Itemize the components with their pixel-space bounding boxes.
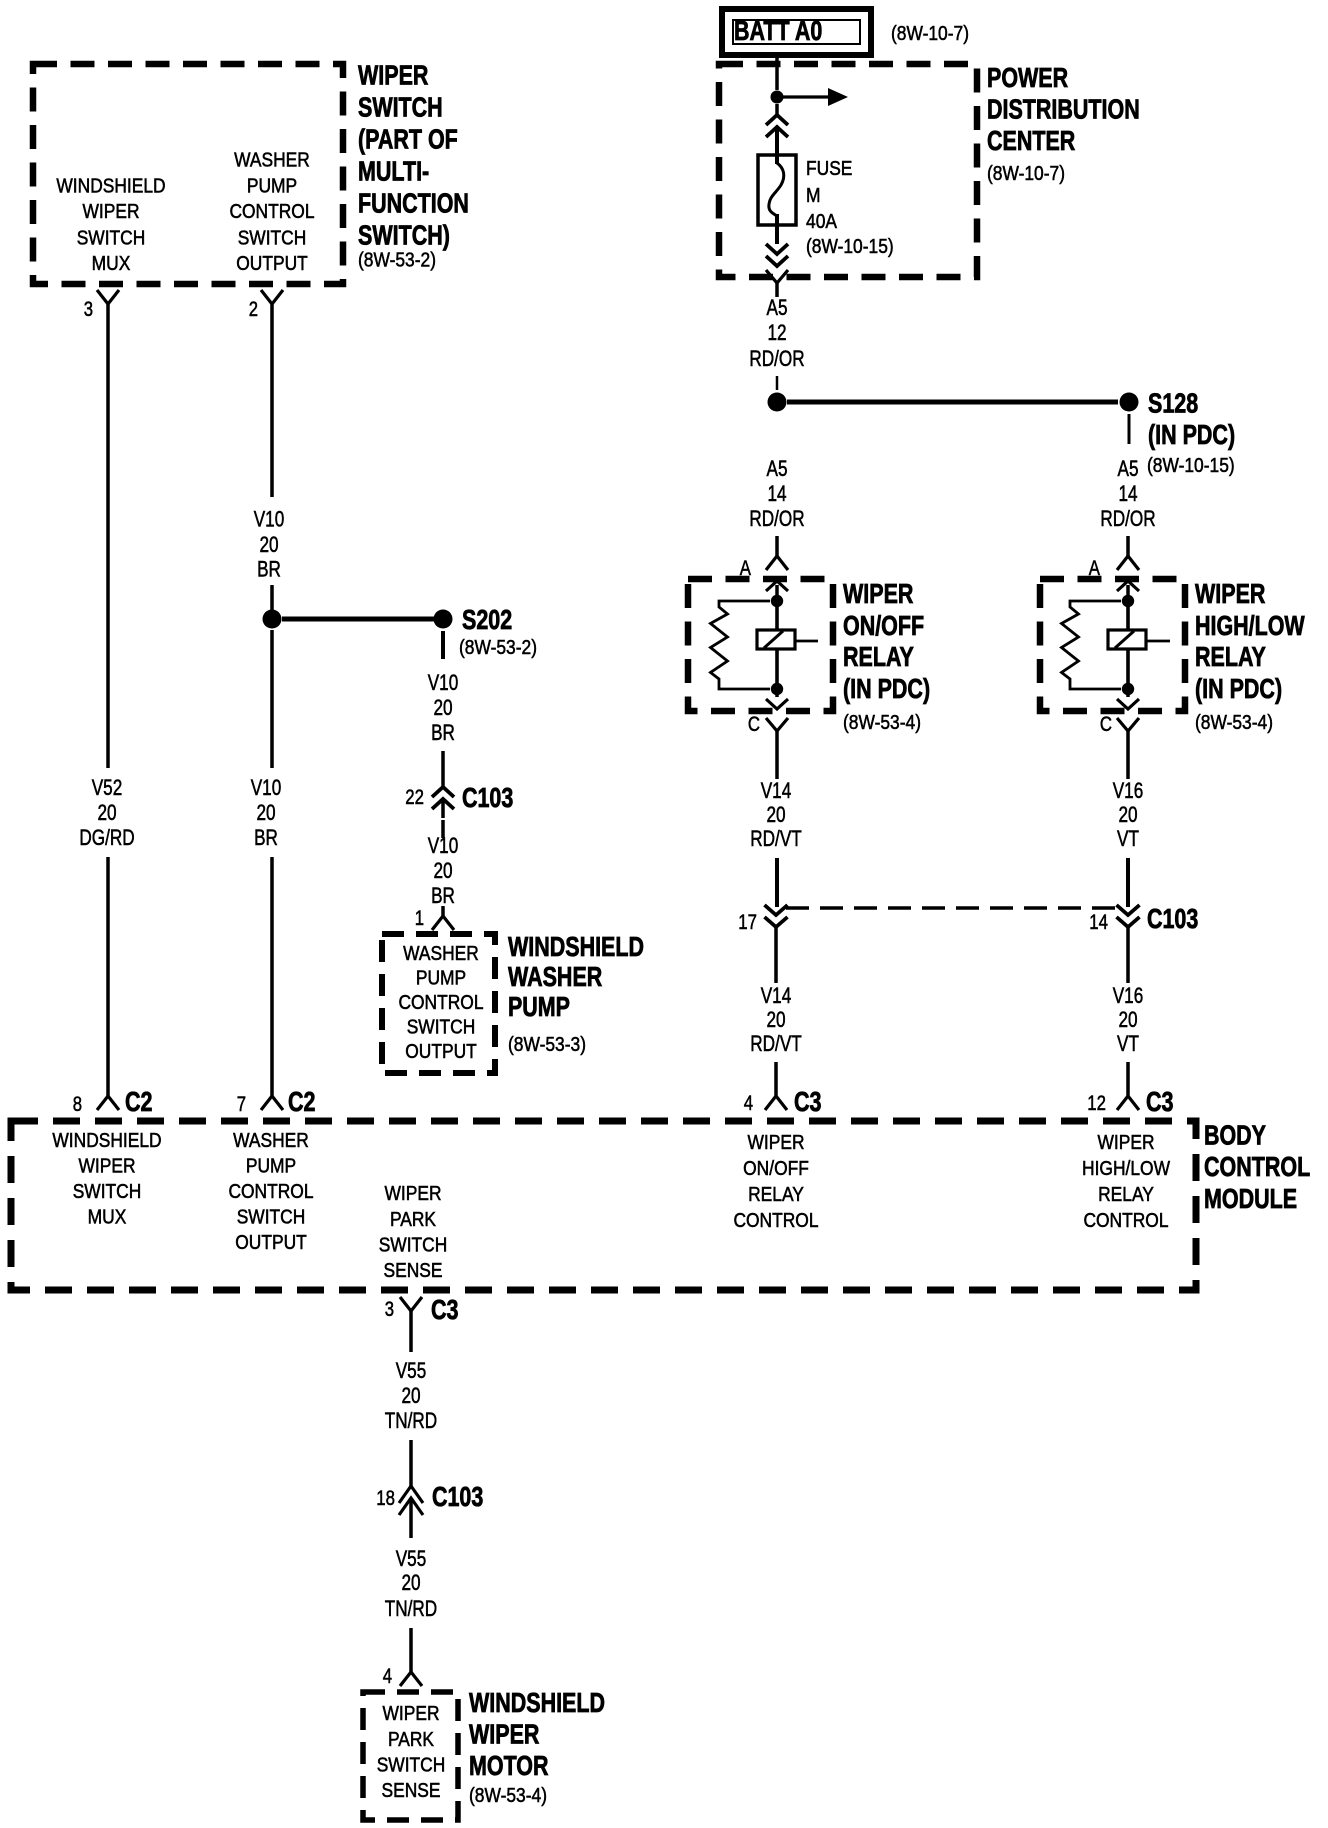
svg-text:SENSE: SENSE — [382, 1780, 441, 1802]
male connector chevron at relay pin C — [1117, 689, 1139, 709]
component box: BODY CONTROL MODULE — [11, 1121, 1196, 1290]
svg-text:WINDSHIELD: WINDSHIELD — [469, 1687, 605, 1718]
svg-text:(8W-53-2): (8W-53-2) — [459, 637, 537, 659]
svg-text:V55: V55 — [396, 1546, 427, 1571]
wire A5 14 RD/OR to wiper high/low relay — [1100, 456, 1155, 556]
wire V52 20 DG/RD from wiper switch pin 3 to BCM pin 8 — [79, 304, 134, 1096]
svg-text:PARK: PARK — [388, 1729, 435, 1751]
svg-text:VT: VT — [1117, 826, 1139, 851]
svg-text:V10: V10 — [428, 833, 459, 858]
svg-text:WASHER: WASHER — [403, 943, 479, 965]
svg-text:ON/OFF: ON/OFF — [843, 610, 924, 641]
svg-text:12: 12 — [1087, 1092, 1106, 1115]
svg-text:BR: BR — [254, 825, 278, 850]
svg-text:WIPER: WIPER — [1195, 578, 1265, 609]
arrow to other circuits — [777, 88, 848, 106]
svg-text:SWITCH: SWITCH — [73, 1181, 142, 1203]
relay coil bottom node — [1122, 683, 1134, 695]
pin A of high/low relay — [1089, 556, 1139, 580]
svg-text:SENSE: SENSE — [384, 1260, 443, 1282]
male connector chevron at relay pin A — [1117, 581, 1139, 600]
relay resistor (in parallel with coil) — [711, 601, 771, 689]
relay resistor (in parallel with coil) — [1062, 601, 1122, 689]
svg-text:POWER: POWER — [987, 62, 1068, 93]
svg-text:MUX: MUX — [88, 1207, 127, 1229]
svg-text:CENTER: CENTER — [987, 125, 1075, 156]
svg-text:PUMP: PUMP — [247, 176, 297, 198]
svg-text:WINDSHIELD: WINDSHIELD — [56, 176, 165, 198]
svg-text:20: 20 — [401, 1570, 420, 1595]
label: BCM windshield wiper switch mux input — [52, 1130, 161, 1229]
svg-text:VT: VT — [1117, 1031, 1139, 1056]
wire segment junction to S202 — [282, 617, 435, 622]
svg-text:18: 18 — [376, 1487, 395, 1510]
svg-text:WINDSHIELD: WINDSHIELD — [508, 931, 644, 962]
svg-text:CONTROL: CONTROL — [1083, 1210, 1168, 1232]
svg-text:V10: V10 — [428, 670, 459, 695]
svg-text:C: C — [748, 713, 760, 736]
svg-text:TN/RD: TN/RD — [385, 1596, 437, 1621]
svg-text:1: 1 — [415, 907, 424, 930]
svg-text:PARK: PARK — [390, 1209, 437, 1231]
svg-text:BR: BR — [257, 557, 281, 582]
BCM pin 3 connector C3 (bottom) — [385, 1294, 459, 1325]
svg-text:CONTROL: CONTROL — [229, 201, 314, 223]
svg-text:WIPER: WIPER — [748, 1132, 805, 1154]
male connector double chevron to fuse — [766, 104, 788, 164]
svg-text:RD/VT: RD/VT — [750, 1031, 802, 1056]
svg-text:C103: C103 — [1147, 903, 1198, 934]
svg-text:4: 4 — [383, 1665, 393, 1688]
BCM pin 7 connector C2 — [237, 1086, 316, 1117]
svg-text:M: M — [806, 185, 821, 207]
BCM pin 8 connector C2 — [73, 1086, 153, 1117]
pin A of on/off relay — [740, 556, 788, 580]
svg-text:FUSE: FUSE — [806, 158, 852, 180]
pin 3 of wiper switch — [84, 290, 119, 321]
svg-text:A5: A5 — [767, 295, 788, 320]
svg-text:14: 14 — [1118, 481, 1137, 506]
svg-text:RELAY: RELAY — [748, 1184, 804, 1206]
svg-text:V16: V16 — [1113, 983, 1144, 1008]
svg-text:V16: V16 — [1113, 778, 1144, 803]
svg-text:(8W-53-3): (8W-53-3) — [508, 1034, 586, 1056]
relay box: WIPER HIGH/LOW RELAY (IN PDC) — [1040, 579, 1185, 711]
wire A5 14 RD/OR to wiper on/off relay — [749, 456, 804, 556]
component box: WINDSHIELD WASHER PUMP — [382, 934, 495, 1073]
svg-text:A5: A5 — [767, 456, 788, 481]
svg-text:(PART OF: (PART OF — [358, 123, 458, 154]
label: BODY CONTROL MODULE — [1204, 1120, 1310, 1215]
svg-text:V10: V10 — [254, 507, 285, 532]
svg-text:RD/OR: RD/OR — [1100, 506, 1155, 531]
svg-text:14: 14 — [767, 481, 786, 506]
svg-text:3: 3 — [385, 1298, 394, 1321]
svg-text:RELAY: RELAY — [1098, 1184, 1154, 1206]
relay coil — [1108, 601, 1170, 684]
svg-text:RD/OR: RD/OR — [749, 506, 804, 531]
svg-text:BATT A0: BATT A0 — [734, 15, 822, 46]
wire from BATT A0 into PDC — [775, 55, 779, 90]
svg-text:WIPER: WIPER — [843, 578, 913, 609]
svg-text:CONTROL: CONTROL — [1204, 1151, 1310, 1182]
svg-text:WASHER: WASHER — [233, 1130, 309, 1152]
male connector double chevron below fuse and PDC output pin — [766, 214, 788, 297]
component box: WIPER SWITCH (part of multi-function switch) — [33, 64, 343, 284]
svg-text:DG/RD: DG/RD — [79, 825, 134, 850]
svg-text:PUMP: PUMP — [246, 1156, 296, 1178]
svg-text:S202: S202 — [462, 604, 512, 635]
svg-text:RELAY: RELAY — [1195, 641, 1266, 672]
connector C103 pin 18 — [376, 1481, 483, 1538]
splice junction on V10 wire — [263, 610, 282, 629]
connector C103 pin 17 — [738, 905, 787, 934]
wire V16 20 VT from high/low relay to C103 pin 14 — [1113, 745, 1144, 907]
label: FUSE M 40A (8W-10-15) — [806, 158, 894, 258]
svg-text:MUX: MUX — [92, 253, 131, 275]
label: BCM washer pump control switch output — [228, 1130, 313, 1254]
svg-text:WASHER: WASHER — [234, 150, 310, 172]
label: wiper switch internal function names — [56, 150, 314, 276]
svg-text:20: 20 — [433, 858, 452, 883]
svg-text:C103: C103 — [432, 1481, 483, 1512]
svg-text:A5: A5 — [1118, 456, 1139, 481]
splice S128 (IN PDC) (8W-10-15) — [1120, 388, 1236, 478]
svg-text:BR: BR — [431, 883, 455, 908]
pin 2 of wiper switch — [249, 290, 283, 321]
svg-text:WIPER: WIPER — [83, 201, 140, 223]
svg-text:WIPER: WIPER — [358, 60, 428, 91]
svg-text:(8W-10-15): (8W-10-15) — [806, 236, 894, 258]
svg-text:(8W-53-4): (8W-53-4) — [1195, 712, 1273, 734]
relay box: WIPER ON/OFF RELAY (IN PDC) — [688, 579, 833, 711]
svg-text:(8W-53-4): (8W-53-4) — [843, 712, 921, 734]
svg-text:V14: V14 — [761, 983, 792, 1008]
svg-text:C103: C103 — [462, 782, 513, 813]
label: POWER DISTRIBUTION CENTER (8W-10-7) — [987, 62, 1140, 185]
svg-text:WIPER: WIPER — [385, 1183, 442, 1205]
wire from junction to splice S128 — [787, 400, 1118, 405]
svg-text:ON/OFF: ON/OFF — [743, 1158, 809, 1180]
label: WIPER ON/OFF RELAY (IN PDC) (8W-53-4) — [843, 578, 930, 734]
relay coil top node — [771, 595, 783, 607]
component box: POWER DISTRIBUTION CENTER — [719, 64, 977, 277]
svg-text:HIGH/LOW: HIGH/LOW — [1082, 1158, 1170, 1180]
svg-text:SWITCH: SWITCH — [77, 228, 146, 250]
svg-text:RELAY: RELAY — [843, 641, 914, 672]
junction node in PDC feeding other circuits — [771, 91, 784, 104]
wire V10 20 BR from C103 to washer pump pin 1 — [428, 820, 459, 916]
splice S202 — [434, 604, 538, 659]
svg-text:WASHER: WASHER — [508, 961, 602, 992]
label: BCM wiper high/low relay control — [1082, 1132, 1170, 1232]
svg-text:HIGH/LOW: HIGH/LOW — [1195, 610, 1305, 641]
svg-text:(8W-10-7): (8W-10-7) — [987, 163, 1065, 185]
svg-text:FUNCTION: FUNCTION — [358, 187, 469, 218]
svg-text:WIPER: WIPER — [469, 1719, 539, 1750]
label: WIPER HIGH/LOW RELAY (IN PDC) (8W-53-4) — [1195, 578, 1305, 734]
svg-text:OUTPUT: OUTPUT — [236, 253, 308, 275]
svg-text:12: 12 — [767, 320, 786, 345]
svg-text:CONTROL: CONTROL — [398, 992, 483, 1014]
connector C103 boundary dashed line — [786, 906, 1118, 910]
svg-text:17: 17 — [738, 911, 757, 934]
svg-text:14: 14 — [1089, 911, 1108, 934]
svg-text:7: 7 — [237, 1093, 246, 1116]
label: BCM wiper park switch sense — [379, 1183, 448, 1282]
svg-text:BR: BR — [431, 720, 455, 745]
male connector chevron at relay pin C — [766, 689, 788, 709]
component box: WINDSHIELD WIPER MOTOR — [363, 1692, 458, 1820]
wire V10 20 BR from wiper switch pin 2 to splice S202 — [254, 304, 285, 619]
svg-text:8: 8 — [73, 1093, 82, 1116]
svg-text:CONTROL: CONTROL — [733, 1210, 818, 1232]
svg-text:20: 20 — [401, 1383, 420, 1408]
BCM pin 12 connector C3 — [1087, 1086, 1173, 1117]
pin C of on/off relay — [748, 713, 788, 745]
pin 4 of windshield wiper motor — [383, 1665, 422, 1688]
connector C103 pin 22 — [405, 782, 513, 818]
svg-text:V52: V52 — [92, 775, 123, 800]
svg-text:SWITCH: SWITCH — [237, 1207, 306, 1229]
label: (8W-10-7) next to BATT A0 — [891, 23, 969, 45]
svg-text:(IN PDC): (IN PDC) — [843, 673, 930, 704]
svg-text:SWITCH: SWITCH — [377, 1755, 446, 1777]
svg-text:C2: C2 — [288, 1086, 316, 1117]
svg-text:(8W-53-2): (8W-53-2) — [358, 250, 436, 272]
svg-text:PUMP: PUMP — [416, 968, 466, 990]
svg-text:C3: C3 — [794, 1086, 822, 1117]
wire V55 20 TN/RD from C103 to wiper motor pin 4 — [385, 1546, 437, 1672]
wire V14 20 RD/VT from C103 to BCM pin 4 — [750, 927, 802, 1096]
relay coil bottom node — [771, 683, 783, 695]
svg-text:SWITCH: SWITCH — [238, 228, 307, 250]
label: WINDSHIELD WASHER PUMP (8W-53-3) — [508, 931, 644, 1056]
svg-text:SWITCH: SWITCH — [379, 1235, 448, 1257]
pin C of high/low relay — [1100, 713, 1139, 745]
wire V14 20 RD/VT from on/off relay to C103 pin 17 — [750, 745, 802, 907]
svg-text:C3: C3 — [1146, 1086, 1174, 1117]
svg-text:3: 3 — [84, 298, 93, 321]
label: WINDSHIELD WIPER MOTOR (8W-53-4) — [469, 1687, 605, 1807]
svg-text:(IN PDC): (IN PDC) — [1148, 419, 1235, 450]
svg-text:20: 20 — [97, 800, 116, 825]
svg-text:WIPER: WIPER — [79, 1156, 136, 1178]
svg-text:20: 20 — [1118, 1007, 1137, 1032]
svg-text:DISTRIBUTION: DISTRIBUTION — [987, 94, 1140, 125]
svg-text:MULTI-: MULTI- — [358, 155, 429, 186]
svg-text:20: 20 — [766, 802, 785, 827]
wire A5 12 RD/OR from PDC to splice S128 — [749, 295, 804, 390]
connector C103 pin 14 — [1089, 903, 1198, 934]
svg-text:RD/OR: RD/OR — [749, 346, 804, 371]
pin 1 of windshield washer pump — [415, 907, 454, 930]
svg-text:22: 22 — [405, 786, 424, 809]
power source box BATT A0 — [722, 9, 871, 55]
svg-text:C3: C3 — [431, 1294, 459, 1325]
svg-text:20: 20 — [256, 800, 275, 825]
svg-text:V55: V55 — [396, 1358, 427, 1383]
svg-text:MODULE: MODULE — [1204, 1183, 1297, 1214]
svg-text:SWITCH): SWITCH) — [358, 219, 450, 250]
label: WIPER SWITCH (PART OF MULTI-FUNCTION SWITCH) (8W-53-2) — [358, 60, 469, 272]
svg-text:RD/VT: RD/VT — [750, 826, 802, 851]
svg-text:WIPER: WIPER — [383, 1703, 440, 1725]
svg-text:20: 20 — [1118, 802, 1137, 827]
fuse M 40A — [758, 155, 796, 225]
wire V10 20 BR continuing down to BCM pin 7 — [251, 630, 282, 1096]
svg-text:(8W-10-15): (8W-10-15) — [1147, 455, 1235, 477]
relay coil top node — [1122, 595, 1134, 607]
wire V55 20 TN/RD from BCM pin 3 to C103 pin 18 — [385, 1311, 437, 1486]
svg-text:SWITCH: SWITCH — [407, 1017, 476, 1039]
svg-text:CONTROL: CONTROL — [228, 1181, 313, 1203]
wire V10 20 BR from S202 to connector C103 pin 22 — [428, 631, 459, 787]
svg-text:WIPER: WIPER — [1098, 1132, 1155, 1154]
svg-text:WINDSHIELD: WINDSHIELD — [52, 1130, 161, 1152]
relay coil — [757, 601, 818, 684]
svg-text:(IN PDC): (IN PDC) — [1195, 673, 1282, 704]
BCM pin 4 connector C3 — [744, 1086, 822, 1117]
wire V16 20 VT from C103 to BCM pin 12 — [1113, 927, 1144, 1096]
svg-text:C: C — [1100, 713, 1112, 736]
svg-text:S128: S128 — [1148, 388, 1198, 419]
svg-text:(8W-53-4): (8W-53-4) — [469, 1785, 547, 1807]
svg-text:20: 20 — [259, 532, 278, 557]
svg-text:4: 4 — [744, 1092, 754, 1115]
male connector chevron at relay pin A — [766, 581, 788, 600]
svg-text:2: 2 — [249, 298, 258, 321]
svg-text:40A: 40A — [806, 211, 838, 233]
svg-text:V14: V14 — [761, 778, 792, 803]
svg-text:OUTPUT: OUTPUT — [235, 1232, 307, 1254]
svg-text:SWITCH: SWITCH — [358, 91, 443, 122]
svg-text:20: 20 — [766, 1007, 785, 1032]
svg-text:BODY: BODY — [1204, 1120, 1266, 1151]
splice junction on A5 wire — [768, 393, 787, 412]
label: BCM wiper on/off relay control — [733, 1132, 818, 1232]
svg-text:MOTOR: MOTOR — [469, 1750, 549, 1781]
svg-text:V10: V10 — [251, 775, 282, 800]
svg-text:20: 20 — [433, 695, 452, 720]
svg-text:OUTPUT: OUTPUT — [405, 1041, 477, 1063]
svg-text:(8W-10-7): (8W-10-7) — [891, 23, 969, 45]
svg-text:PUMP: PUMP — [508, 991, 570, 1022]
svg-text:TN/RD: TN/RD — [385, 1408, 437, 1433]
svg-text:C2: C2 — [125, 1086, 153, 1117]
